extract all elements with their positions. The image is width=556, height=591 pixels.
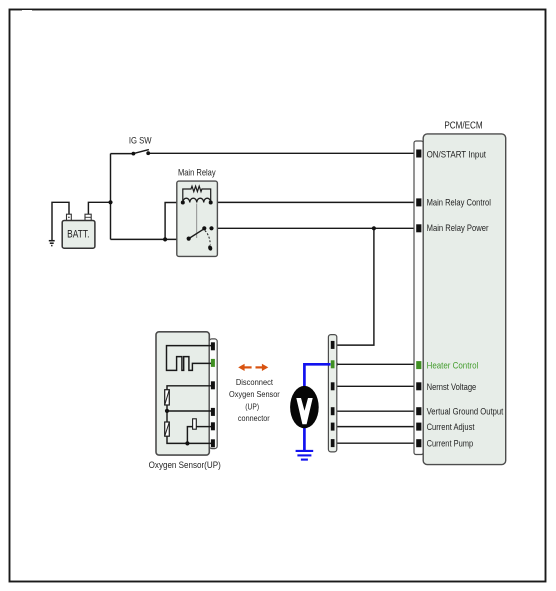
svg-text:PCM/ECM: PCM/ECM (444, 120, 482, 131)
svg-text:(UP): (UP) (245, 402, 259, 412)
svg-text:BATT.: BATT. (67, 229, 89, 241)
svg-text:Current Pump: Current Pump (427, 438, 474, 449)
svg-text:Nernst Voltage: Nernst Voltage (427, 381, 477, 392)
svg-text:Current Adjust: Current Adjust (427, 421, 475, 432)
svg-text:IG SW: IG SW (129, 135, 153, 146)
svg-text:Main Relay Control: Main Relay Control (427, 196, 491, 207)
svg-text:Main Relay: Main Relay (178, 167, 216, 178)
svg-text:Main Relay Power: Main Relay Power (427, 222, 489, 233)
svg-text:ON/START Input: ON/START Input (427, 149, 487, 160)
svg-text:Disconnect: Disconnect (236, 378, 274, 387)
svg-text:Oxygen Sensor(UP): Oxygen Sensor(UP) (149, 459, 221, 470)
svg-text:Vertual Ground Output: Vertual Ground Output (427, 406, 504, 417)
svg-text:Heater Control: Heater Control (427, 360, 479, 371)
svg-text:Oxygen Sensor: Oxygen Sensor (229, 390, 280, 400)
svg-text:connector: connector (238, 413, 270, 423)
